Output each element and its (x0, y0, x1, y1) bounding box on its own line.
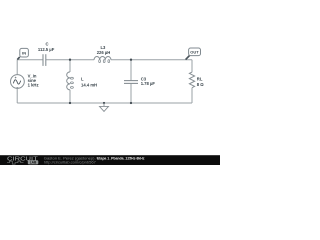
junction dot ground tap (103, 102, 105, 104)
svg-text:http://circuitlab.com/c/pnb567: http://circuitlab.com/c/pnb567 (44, 161, 96, 165)
wire: right vertical top (OUT corner to RL top) (191, 60, 193, 73)
ground (100, 103, 109, 111)
wire: top rail C right plate to L3 left (46, 59, 94, 61)
inductor L3 (series, horizontal) (94, 57, 111, 63)
svg-text:Gaston E. Perez (gastonep) /: Gaston E. Perez (gastonep) / (44, 155, 98, 160)
node B junction dot (top of C3) (130, 59, 132, 61)
svg-text:226 µH: 226 µH (97, 50, 111, 55)
wire: top rail L3 right to OUT corner (111, 59, 192, 61)
capacitor C3 (shunt, vertical) (124, 81, 138, 84)
wire: C3 branch top (node B to C3 top plate) (130, 60, 132, 81)
junction dot bottom of C3 (130, 102, 132, 104)
resistor RL (load, vertical zigzag) (189, 72, 194, 88)
svg-text:1 kHz: 1 kHz (28, 83, 39, 88)
flag IN (17, 48, 28, 59)
capacitor C (series, horizontal) (43, 54, 46, 66)
wire: left vertical from IN corner down to V_in top (16, 60, 18, 75)
flag OUT (186, 48, 201, 60)
svg-text:8 Ω: 8 Ω (197, 82, 204, 87)
wire: C3 bottom plate to bottom rail (130, 84, 132, 103)
wire: V_in bottom to bottom rail (16, 88, 18, 103)
wire: bottom rail (17, 102, 192, 104)
footer bar (0, 155, 220, 165)
junction dot bottom of L (69, 102, 71, 104)
svg-text:IN: IN (22, 51, 26, 56)
svg-text:L: L (81, 77, 84, 82)
wire: L coil bottom to bottom rail (69, 90, 71, 103)
wire: RL bottom to bottom rail (191, 88, 193, 103)
node A junction dot (top of L) (69, 59, 71, 61)
wire: top rail left segment (node IN to C left plate) (17, 59, 43, 61)
footer logo LAB badge (28, 160, 39, 164)
footer logo waveform (7, 161, 23, 164)
svg-text:14.4 mH: 14.4 mH (81, 83, 97, 88)
inductor L (shunt, vertical) (67, 72, 74, 90)
svg-text:Etapa 1_Pbanda_125Hz-8kHz: Etapa 1_Pbanda_125Hz-8kHz (97, 155, 145, 160)
voltage source V_in (sine) (11, 75, 25, 89)
svg-text:LAB: LAB (30, 161, 37, 165)
wire: L branch top (node A to coil) (69, 60, 71, 72)
svg-text:1.78 µF: 1.78 µF (141, 81, 156, 86)
svg-text:RL: RL (197, 76, 203, 81)
svg-text:OUT: OUT (190, 49, 199, 54)
svg-text:C: C (45, 42, 48, 47)
svg-text:112.5 µF: 112.5 µF (38, 47, 55, 52)
